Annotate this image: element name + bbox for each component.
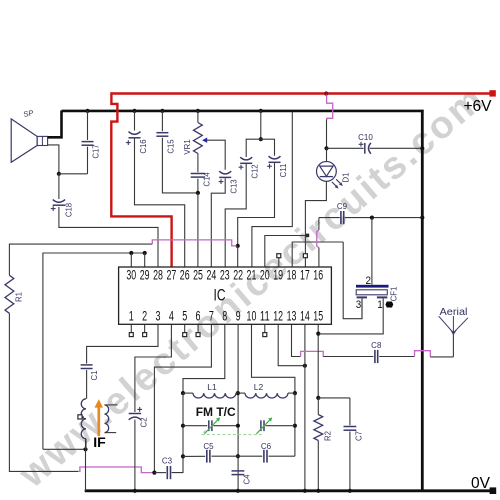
svg-text:22: 22 <box>233 268 243 283</box>
node R2-C7 top junction <box>316 396 320 400</box>
capacitor C12 electrolytic <box>240 157 252 160</box>
wire IC pin 14 to 0V rail <box>304 324 306 490</box>
variable resistor VR1 <box>194 123 203 154</box>
IC U1 body <box>119 267 332 324</box>
wire pin15 node to CF1 pin 1 <box>318 298 383 334</box>
variable capacitor FM tuning 2 <box>260 420 262 431</box>
svg-text:C9: C9 <box>337 202 348 211</box>
node D1-C10 junction <box>324 146 328 150</box>
node C10 on right rail <box>420 146 424 150</box>
wire IC pin 18 to CF1 pin 3 route <box>292 242 343 267</box>
svg-text:VR1: VR1 <box>183 139 192 154</box>
node pin 29 corner <box>143 251 147 255</box>
wire C13 bottom to IC pin 24 <box>211 178 225 266</box>
wire IF secondary bottom stub <box>105 432 117 434</box>
svg-text:15: 15 <box>313 308 323 323</box>
node R2 ground <box>316 489 320 493</box>
capacitor C10 electrolytic <box>364 143 366 154</box>
wire to R2 <box>317 398 319 415</box>
ceramic filter CF1 <box>356 285 389 288</box>
wire VR1 top <box>197 111 199 123</box>
svg-text:9: 9 <box>236 308 241 323</box>
svg-text:2: 2 <box>142 308 147 323</box>
svg-text:C10: C10 <box>358 133 373 142</box>
inductor IF transformer primary winding <box>81 399 86 439</box>
wire C16 top <box>134 111 136 131</box>
svg-text:14: 14 <box>300 308 310 323</box>
node +6V tap for LED <box>324 91 328 95</box>
plus sign C18 <box>51 208 56 210</box>
+6V terminal square <box>489 90 495 96</box>
svg-text:12: 12 <box>273 308 283 323</box>
capacitor C5 <box>206 450 208 463</box>
svg-text:20: 20 <box>260 268 270 283</box>
wire to IC pin 16 <box>318 248 320 267</box>
wire to C18 <box>58 174 60 199</box>
node C12-C11 feed on ground rail <box>259 109 263 113</box>
svg-text:7: 7 <box>209 308 214 323</box>
wire C1 bottom to IF primary <box>86 370 88 399</box>
plus sign C2 <box>137 408 142 410</box>
svg-text:10: 10 <box>247 308 257 323</box>
wire CF1 pin 3 down <box>361 299 363 319</box>
wire node to C10 <box>327 147 364 149</box>
unconnected pin 11 stub <box>264 324 266 332</box>
wire to C12 and C11 tops <box>246 139 274 157</box>
svg-text:C14: C14 <box>202 172 211 187</box>
node L1-L2 center <box>236 391 240 395</box>
node C16 top on ground rail <box>132 109 136 113</box>
wire IC pin 9 center rail to 0V <box>237 324 239 490</box>
svg-text:25: 25 <box>193 268 203 283</box>
svg-text:19: 19 <box>273 268 283 283</box>
resistor R2 <box>314 415 323 441</box>
plus sign C11 <box>267 165 272 167</box>
IF tuning arrow orange <box>97 407 100 436</box>
wire C9 row left <box>319 217 340 219</box>
node C5 row left <box>181 454 185 458</box>
wire bottom 0V rail <box>85 489 493 492</box>
svg-text:11: 11 <box>260 308 270 323</box>
wire C10 to right rail <box>370 147 423 149</box>
wire C8 to purple jump <box>379 356 414 358</box>
speaker SP <box>11 119 37 162</box>
svg-text:C11: C11 <box>279 164 288 178</box>
svg-text:5: 5 <box>182 308 187 323</box>
LED D1 emission arrows <box>332 179 342 187</box>
plus sign C10 <box>359 143 364 145</box>
capacitor C17 <box>82 141 94 143</box>
node varcap row center <box>236 424 240 428</box>
LED D1 <box>317 162 337 182</box>
wire purple jump to pin 16 <box>317 230 319 248</box>
node pin 30 tap <box>129 251 133 255</box>
antenna Aerial <box>452 331 454 357</box>
unconnected pin 2 stub <box>144 324 146 332</box>
svg-text:C17: C17 <box>92 144 101 158</box>
wire C2 bottom to 0V rail <box>134 420 136 491</box>
wire R1 top to purple jump <box>9 244 152 275</box>
node C7 ground <box>348 489 352 493</box>
wire C5 row left <box>183 455 205 457</box>
capacitor C11 electrolytic <box>269 156 281 159</box>
svg-text:IC: IC <box>214 287 226 305</box>
svg-text:24: 24 <box>207 268 217 283</box>
wire node to C3 <box>154 472 166 474</box>
capacitor C14 <box>191 173 205 175</box>
wire varcap row middle segment <box>213 425 236 427</box>
node L1 left <box>181 391 185 395</box>
svg-text:23: 23 <box>220 268 230 283</box>
svg-text:30: 30 <box>126 268 136 283</box>
svg-text:+6V: +6V <box>463 98 492 115</box>
VR1 wiper arrow <box>202 138 207 143</box>
node pin12-pin14 junction <box>303 364 307 368</box>
node speaker-C17-C18 junction <box>57 172 61 176</box>
wire to IC pin 30 <box>130 253 132 267</box>
svg-text:C2: C2 <box>140 418 149 428</box>
svg-text:L1: L1 <box>207 382 217 392</box>
capacitor C18 electrolytic <box>53 200 65 203</box>
wire purple jump R1 bottom to C3 node <box>78 467 153 473</box>
svg-text:4: 4 <box>169 308 174 323</box>
wire node to IC pin 25 <box>197 193 199 267</box>
plus sign C13 <box>219 181 224 183</box>
svg-text:27: 27 <box>166 268 176 283</box>
wire L1 to center <box>236 392 238 394</box>
wire to CF1 pin 3 <box>343 242 362 319</box>
svg-text:3: 3 <box>156 308 161 323</box>
capacitor C13 electrolytic <box>219 171 231 174</box>
node C5-C6 row center <box>236 454 240 458</box>
node pin22 junction <box>236 244 240 248</box>
wire to C8 <box>323 356 373 358</box>
wire IC pin 21 to ground rail <box>252 112 292 267</box>
node C2 ground <box>133 489 137 493</box>
wire purple jump R1 to pin 22 node <box>152 240 236 246</box>
wire IF ground to pins 30 29 <box>43 253 145 449</box>
svg-text:2: 2 <box>366 275 372 287</box>
inductor IF transformer secondary winding <box>105 405 109 433</box>
wire to aerial <box>430 356 453 358</box>
capacitor C3 <box>166 466 168 479</box>
wire top ground rail 0V <box>62 110 424 113</box>
node C15 top on ground rail <box>160 109 164 113</box>
wire varcap row left segment <box>183 425 207 427</box>
svg-text:6: 6 <box>196 308 201 323</box>
wire +6V red rail <box>111 92 492 94</box>
wire C9 left drop <box>318 218 320 230</box>
node center rail ground <box>236 489 240 493</box>
wire rail to C12-C11 node <box>260 111 262 139</box>
svg-text:R1: R1 <box>15 292 24 302</box>
node pin15-CF1 junction <box>316 332 320 336</box>
capacitor C4 <box>232 470 245 472</box>
capacitor C15 <box>156 132 168 134</box>
svg-text:C6: C6 <box>261 442 272 451</box>
wire C15 top <box>161 111 163 131</box>
node pin14 ground <box>303 489 307 493</box>
svg-text:FM T/C: FM T/C <box>196 405 236 419</box>
resistor R1 <box>5 275 14 313</box>
wire to D1 C10 node <box>326 120 328 149</box>
unconnected pin 5 stub <box>184 324 186 332</box>
wire C12 bottom to IC pin 23 <box>225 164 246 267</box>
svg-text:28: 28 <box>153 268 163 283</box>
wire IC pin 15 down <box>317 324 319 398</box>
wire D1 cathode to terminator <box>305 181 326 253</box>
node C9 row on right rail <box>420 216 424 220</box>
wire C15 bottom to node <box>162 138 196 193</box>
variable capacitor FM tuning 1 <box>208 420 210 431</box>
wire VR1 bottom to C14 <box>197 154 199 173</box>
wire speaker bottom terminal down <box>48 145 59 174</box>
wire C14 bottom to node <box>197 179 199 193</box>
wire R1 bottom <box>9 313 78 471</box>
capacitor C7 <box>344 426 357 428</box>
svg-text:D1: D1 <box>342 173 351 183</box>
svg-text:26: 26 <box>180 268 190 283</box>
node L2 right <box>293 391 297 395</box>
wire IC pin 8 to tank left node <box>183 324 225 393</box>
capacitor C16 electrolytic <box>129 132 141 135</box>
wire C18 bottom to IC pin 28 <box>59 207 158 267</box>
node C12-C11 junction <box>259 137 263 141</box>
wire VR1 wiper to C13 top <box>207 140 226 170</box>
node C14-C15-pin25 junction <box>196 191 200 195</box>
svg-text:R2: R2 <box>324 431 333 441</box>
0V terminal square <box>490 487 497 494</box>
svg-text:C13: C13 <box>230 179 239 193</box>
wire C3 to tank left rail <box>172 456 183 472</box>
svg-text:IF: IF <box>93 435 106 450</box>
capacitor C2 electrolytic <box>129 413 141 415</box>
wire C6 row right <box>269 455 295 457</box>
plus sign C16 <box>126 142 131 144</box>
unconnected pin 17 stub with D1 wire end <box>304 258 306 267</box>
wire right vertical ground rail <box>421 110 424 492</box>
svg-text:C3: C3 <box>162 457 173 466</box>
wire node to D1 <box>326 148 328 161</box>
wire tank left rail <box>182 393 184 456</box>
wire IC pin 20 stub <box>265 236 306 267</box>
wire IC pin 10 to tank right node <box>252 324 295 393</box>
node C17 top on ground rail <box>85 109 89 113</box>
wire to CF1 pin 2 <box>371 218 373 285</box>
wire C9 row right to rail <box>345 217 422 219</box>
svg-text:L2: L2 <box>254 382 264 392</box>
svg-text:13: 13 <box>287 308 297 323</box>
svg-text:3: 3 <box>356 299 362 311</box>
wire IC pin 13 toward C8 <box>292 324 301 356</box>
wire C16 bottom to IC pin 26 <box>135 138 185 266</box>
svg-text:29: 29 <box>140 268 150 283</box>
node C3-R1-pin7 junction <box>152 471 156 475</box>
wire node to C7 top <box>318 397 350 399</box>
wire IC pin 7 down to C3 node <box>154 324 211 472</box>
capacitor C1 <box>81 364 93 366</box>
svg-text:C5: C5 <box>203 442 214 451</box>
wire to IF bottom junction <box>43 448 86 450</box>
pin 20 wire end square <box>306 234 310 238</box>
ganged tuning dashed link <box>202 431 263 435</box>
svg-text:C12: C12 <box>250 164 259 178</box>
node varcap row left <box>181 424 185 428</box>
CF1 pin 1 blob <box>385 302 393 308</box>
svg-text:21: 21 <box>247 268 257 283</box>
svg-text:SP: SP <box>23 108 34 119</box>
wire IF secondary top stub <box>105 404 118 406</box>
svg-text:C4: C4 <box>242 474 251 485</box>
plus sign C12 <box>239 166 244 168</box>
svg-text:CF1: CF1 <box>390 287 399 302</box>
wire C5 to C6 <box>212 455 263 457</box>
unconnected pin 1 stub <box>130 324 132 332</box>
inductor L2 <box>245 393 288 398</box>
wire purple jump from +6V over ground rail <box>327 95 333 121</box>
wire tank right rail <box>294 393 296 456</box>
wire to L1 <box>183 392 193 394</box>
svg-text:C1: C1 <box>90 371 99 381</box>
svg-text:0V: 0V <box>471 475 491 492</box>
svg-text:C16: C16 <box>139 139 148 153</box>
inductor L1 <box>193 393 236 398</box>
wire C7 top <box>349 398 351 425</box>
svg-text:1: 1 <box>129 308 134 323</box>
unconnected pin 19 stub <box>278 258 280 267</box>
node IF bottom junction <box>83 447 87 451</box>
svg-text:C8: C8 <box>371 341 382 350</box>
wire C11 bottom to pin 22 node <box>238 163 275 246</box>
wire IF primary bottom <box>85 439 87 450</box>
svg-text:1: 1 <box>377 299 383 311</box>
svg-text:18: 18 <box>287 268 297 283</box>
wire R2 bottom to 0V rail <box>317 441 319 491</box>
IF transformer core tap square <box>82 416 84 418</box>
wire purple jump over ground rail <box>415 351 431 357</box>
svg-text:8: 8 <box>222 308 227 323</box>
wire node to IC pin 22 <box>237 246 239 267</box>
capacitor C9 <box>340 211 342 224</box>
wire C17 top <box>87 111 89 140</box>
wire red +6V to IC pin 27 <box>111 92 171 266</box>
wire IC pin 12 to pin 14 rail <box>278 324 305 365</box>
wire C7 bottom to 0V rail <box>349 432 351 491</box>
wire C17 bottom <box>87 147 89 174</box>
svg-text:16: 16 <box>313 268 323 283</box>
wire speaker top terminal to ground rail <box>48 111 62 138</box>
svg-text:C18: C18 <box>65 203 74 217</box>
svg-text:17: 17 <box>300 268 310 283</box>
node VR1 top on ground rail <box>196 109 200 113</box>
svg-text:Aerial: Aerial <box>440 307 468 318</box>
wire to L2 <box>238 392 245 394</box>
svg-text:C15: C15 <box>167 139 176 154</box>
wire IC pin 4 to C2 <box>135 324 172 412</box>
node CF1 pin2 tap <box>370 216 374 220</box>
wire IF bottom to 0V rail <box>85 439 87 491</box>
node varcap row right <box>293 424 297 428</box>
capacitor C8 <box>374 350 376 363</box>
wire junction to C17 bottom <box>59 173 88 175</box>
wire purple jump over pins 14 15 <box>301 351 324 356</box>
wire to IC pin 29 <box>144 253 146 267</box>
wire L2 to right rail <box>288 392 295 394</box>
wire varcap row right segment <box>266 425 295 427</box>
unconnected pin 6 stub <box>197 324 199 332</box>
capacitor C6 <box>263 450 265 463</box>
wire IC pin 3 to C1 <box>87 324 158 363</box>
svg-text:C7: C7 <box>354 431 363 441</box>
